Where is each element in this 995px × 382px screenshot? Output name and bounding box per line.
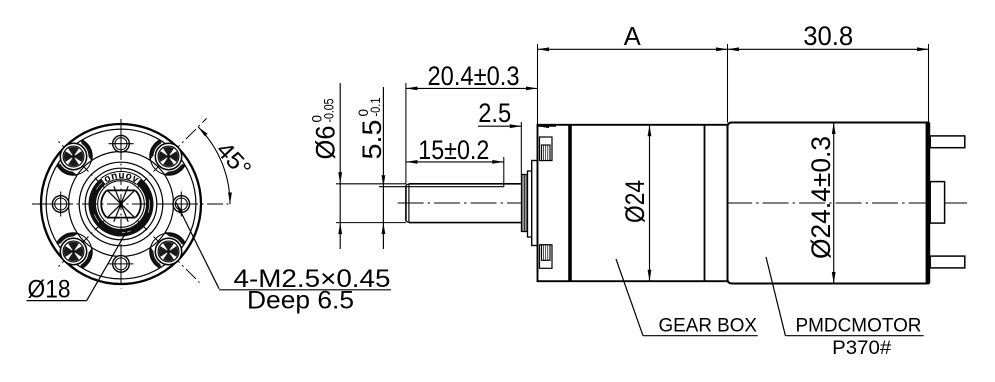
svg-text:GEAR BOX: GEAR BOX — [659, 315, 758, 337]
svg-text:A: A — [624, 21, 642, 51]
svg-text:PMDCMOTOR: PMDCMOTOR — [796, 315, 922, 337]
svg-text:-0.05: -0.05 — [322, 99, 337, 123]
svg-text:5.5: 5.5 — [357, 120, 387, 160]
svg-text:20.4±0.3: 20.4±0.3 — [428, 61, 520, 91]
svg-text:Deep 6.5: Deep 6.5 — [247, 287, 354, 315]
svg-text:Ø24.4±0.3: Ø24.4±0.3 — [806, 136, 836, 259]
svg-text:-0.1: -0.1 — [368, 98, 383, 117]
svg-text:Ø18: Ø18 — [28, 276, 71, 304]
svg-text:Ø6: Ø6 — [311, 126, 341, 160]
svg-text:P370#: P370# — [832, 337, 891, 359]
svg-text:Ø24: Ø24 — [620, 180, 650, 223]
svg-text:2.5: 2.5 — [478, 98, 511, 128]
svg-text:30.8: 30.8 — [803, 21, 853, 51]
svg-text:15±0.2: 15±0.2 — [418, 135, 489, 165]
